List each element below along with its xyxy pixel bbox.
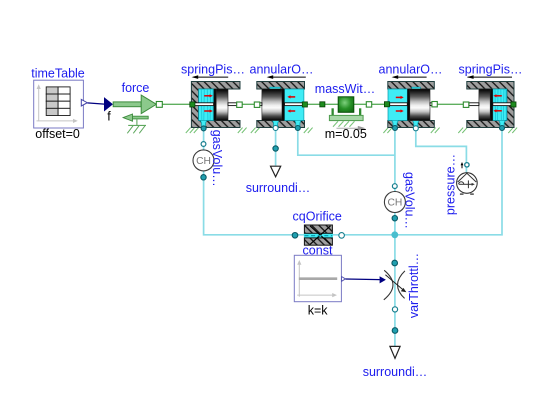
direction arrow gray	[337, 127, 360, 129]
rod left	[390, 103, 408, 106]
flange_a green square	[320, 102, 325, 107]
top wall	[257, 82, 305, 90]
svg-text:gasVolu…: gasVolu…	[403, 172, 417, 229]
port tube	[499, 120, 506, 127]
port circle filled	[201, 126, 206, 131]
annular gap notch	[270, 87, 281, 92]
svg-text:varThrottl…: varThrottl…	[407, 253, 421, 318]
flange_b white square	[366, 102, 371, 107]
svg-text:annularO…: annularO…	[250, 63, 314, 77]
svg-text:surroundi…: surroundi…	[363, 365, 428, 379]
CH circle	[193, 150, 214, 171]
red force marks	[396, 97, 402, 111]
force source block	[104, 81, 162, 134]
flange_b green square	[511, 102, 516, 107]
flange_b white square	[237, 102, 243, 107]
port circle filled	[201, 175, 206, 180]
svg-text:annularO…: annularO…	[379, 63, 443, 77]
signal arrow mark	[461, 164, 463, 168]
port circle open	[201, 142, 206, 147]
wire annularOrifice2 right port to pressure sensor	[416, 129, 467, 173]
wire green mechanical axis	[162, 103, 513, 105]
springPiston1	[181, 63, 247, 133]
junction node	[391, 231, 398, 238]
red force marks	[289, 97, 295, 111]
annularOrifice2	[379, 63, 443, 133]
friction hatches	[333, 121, 355, 127]
svg-text:springPis…: springPis…	[459, 63, 523, 77]
port tubes	[392, 120, 399, 127]
port circle open	[273, 126, 278, 131]
rod left	[195, 103, 214, 106]
annularOrifice1	[250, 63, 314, 133]
red force marks	[495, 96, 501, 111]
piston	[262, 89, 282, 121]
svg-text:CH: CH	[196, 156, 211, 167]
svg-text:k=k: k=k	[308, 304, 329, 318]
wire annularOrifice1 right port to gasVolume2 line	[298, 128, 395, 155]
svg-text:massWit…: massWit…	[315, 82, 375, 96]
bottom wall	[388, 121, 435, 128]
port tube	[200, 120, 207, 127]
pressure sensor	[444, 154, 478, 215]
svg-text:surroundi…: surroundi…	[246, 181, 311, 195]
massWithFriction	[315, 82, 375, 141]
gasVolume1	[193, 130, 224, 187]
ground hatch marks	[186, 128, 247, 133]
annular gap notch	[412, 87, 421, 91]
top wall	[388, 82, 435, 90]
flange_a green square	[384, 102, 389, 107]
rod right	[430, 103, 432, 106]
output connector timeTable.y	[81, 99, 87, 106]
port circle open	[413, 126, 418, 131]
port circle open bottom	[392, 307, 397, 312]
X mark	[310, 226, 331, 245]
flange connector force.flange	[156, 102, 162, 108]
piston	[407, 89, 410, 121]
label arrow	[194, 76, 229, 78]
port tubes	[272, 120, 279, 127]
svg-text:timeTable: timeTable	[31, 66, 85, 80]
right arc	[398, 271, 405, 299]
rod right	[228, 103, 237, 106]
top hatched bar	[304, 225, 332, 233]
flange_b white square	[432, 102, 437, 107]
flange_a white square	[254, 102, 259, 107]
port circle filled	[393, 126, 398, 131]
piston	[490, 89, 493, 121]
const block	[294, 255, 345, 317]
fluid chamber cyan	[388, 89, 407, 121]
cylinder housing hatched	[191, 82, 240, 128]
flange_a white square	[463, 102, 469, 107]
rod right	[285, 103, 303, 106]
wire gasVolume2 vertical line	[394, 128, 396, 346]
reaction arrow and ground	[133, 116, 149, 119]
fluid chamber cyan	[285, 89, 304, 121]
piston	[214, 89, 217, 121]
svg-text:springPis…: springPis…	[181, 63, 245, 77]
svg-text:cqOrifice: cqOrifice	[293, 210, 342, 224]
support plate	[329, 115, 363, 120]
variable arrow	[385, 275, 403, 291]
flange_a green square	[190, 102, 195, 107]
svg-text:f: f	[107, 110, 111, 124]
mass body	[338, 97, 354, 113]
red force marks	[204, 96, 210, 111]
surrounding2	[363, 328, 428, 379]
left arc	[384, 270, 393, 300]
input arrow f	[104, 97, 113, 111]
svg-text:m=0.05: m=0.05	[325, 127, 367, 141]
varThrottle	[384, 253, 421, 318]
gas chamber cyan with spring	[493, 89, 507, 121]
flange_b green square	[302, 102, 307, 107]
wire navy const to varThrottle	[346, 278, 380, 281]
port circle filled	[292, 233, 298, 239]
rod left	[469, 103, 479, 106]
rod left	[260, 103, 262, 106]
support posts	[332, 108, 334, 115]
bottom wall	[257, 121, 305, 128]
green force arrow	[113, 102, 141, 107]
cylinder housing hatched	[467, 82, 514, 128]
wire annularOrifice1 left port to surrounding1	[275, 128, 277, 166]
wire navy timeTable to force	[87, 103, 104, 104]
rod right	[493, 103, 511, 106]
cyan band	[304, 233, 333, 238]
svg-text:offset=0: offset=0	[35, 127, 80, 141]
gas chamber cyan with spring	[199, 89, 214, 121]
port circle open	[465, 163, 469, 167]
cqOrifice	[292, 210, 344, 258]
dashed center line	[305, 235, 333, 237]
output connector const.y	[342, 277, 346, 282]
svg-text:pressure…: pressure…	[444, 154, 458, 215]
port circle open	[339, 233, 345, 239]
port circle filled	[500, 126, 505, 131]
port circle filled top	[392, 260, 398, 266]
gasVolume2	[384, 172, 416, 229]
gauge body	[457, 173, 478, 194]
springPiston2	[458, 63, 522, 133]
svg-text:gasVolu…: gasVolu…	[210, 130, 224, 187]
wire gasVolume1 line down and along bottom to springPiston2	[204, 128, 502, 235]
svg-text:force: force	[122, 81, 150, 95]
timeTable block	[31, 66, 87, 141]
svg-text:CH: CH	[387, 198, 402, 209]
surrounding1	[246, 146, 311, 195]
bottom hatched bar	[304, 238, 332, 245]
port circle filled	[295, 126, 300, 131]
